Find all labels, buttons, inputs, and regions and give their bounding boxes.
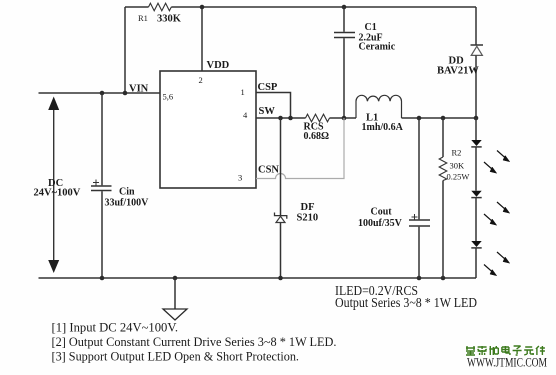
node R2 bottom junction [441, 276, 446, 281]
svg-text:VIN: VIN [129, 84, 149, 95]
wire top rail right segment [171, 6, 476, 8]
svg-text:30K: 30K [450, 161, 466, 171]
svg-text:WWW.JTMIC.COM: WWW.JTMIC.COM [467, 355, 547, 369]
op-amp U1 controller IC box [160, 71, 256, 188]
wire CSP from IC [256, 93, 291, 119]
resistor RCS [306, 114, 330, 122]
capacitor Cout plates [409, 220, 430, 226]
node ground junction [173, 276, 178, 281]
svg-text:Output Series 3~8 * 1W LED: Output Series 3~8 * 1W LED [335, 295, 477, 310]
node R1 branch junction [123, 91, 128, 96]
wire DF vertical upper [280, 118, 282, 216]
wire VIN input rail [39, 92, 161, 94]
svg-text:CSN: CSN [258, 165, 279, 176]
capacitor Cout wire upper [418, 118, 420, 219]
node VDD junction [200, 5, 205, 10]
svg-text:3: 3 [238, 173, 242, 183]
wire left vertical from top rail to VIN rail [124, 7, 126, 93]
node RCS-C1 junction [342, 116, 347, 121]
svg-text:0.68Ω: 0.68Ω [304, 131, 330, 142]
wire RCS to L1 [330, 117, 357, 119]
wire L1 to LED string [402, 117, 477, 119]
svg-text:CSP: CSP [258, 82, 278, 93]
svg-text:SW: SW [259, 106, 276, 117]
capacitor C1 vertical wire upper [343, 7, 345, 32]
wire LED segment 2 [475, 147, 477, 191]
capacitor C1 plates [334, 33, 355, 38]
node DF bottom junction [278, 276, 283, 281]
diode DD triangle [471, 46, 482, 55]
node C1 top junction [342, 5, 347, 10]
svg-text:33uf/100V: 33uf/100V [105, 198, 150, 209]
svg-text:VDD: VDD [207, 60, 230, 71]
wire VDD vertical [201, 7, 203, 71]
svg-text:Cout: Cout [371, 207, 393, 218]
capacitor Cout polarity plus [412, 214, 418, 220]
svg-text:5,6: 5,6 [163, 92, 174, 102]
capacitor C1 vertical wire lower [343, 38, 345, 118]
node LED string junction [474, 116, 479, 121]
LED D1 [471, 140, 481, 146]
svg-text:S210: S210 [297, 213, 319, 224]
diode DF triangle [276, 216, 285, 222]
capacitor Cin polarity plus [93, 180, 99, 186]
svg-text:DF: DF [301, 202, 315, 213]
diode DF vertical lower [280, 223, 282, 279]
wire LED segment 3 [475, 198, 477, 241]
LED D3 emission arrows [484, 252, 510, 276]
wire top rail left segment [125, 6, 149, 8]
resistor R2 zigzag [439, 157, 447, 181]
LED D2 [471, 191, 481, 197]
node SW-DF junction [278, 116, 283, 121]
wire SW from IC [256, 117, 306, 119]
LED D3 [471, 241, 481, 247]
node Cout junction top [417, 116, 422, 121]
LED string wire segment 1 [475, 118, 477, 140]
ground [174, 278, 176, 309]
diode DD vertical wire upper [475, 7, 477, 45]
LED D1 emission arrows [484, 151, 510, 174]
svg-text:1: 1 [241, 87, 245, 97]
wire CSN sense (gray) [256, 118, 344, 179]
svg-text:24V~100V: 24V~100V [34, 188, 81, 199]
inductor L1 [356, 95, 402, 118]
svg-text:100uf/35V: 100uf/35V [358, 218, 403, 229]
node Cin top junction [100, 91, 105, 96]
svg-text:R1: R1 [138, 13, 148, 23]
svg-text:330K: 330K [157, 14, 182, 25]
diode DD cathode bar [471, 44, 484, 46]
svg-text:[3] Support Output LED Open &: [3] Support Output LED Open & Short Prot… [52, 350, 300, 364]
svg-text:2: 2 [199, 75, 203, 85]
wire LED segment 4 [475, 248, 477, 278]
resistor R2 wire lower [442, 181, 444, 279]
diode DD vertical wire lower [475, 55, 477, 118]
svg-text:[2] Output Constant Current Dr: [2] Output Constant Current Drive Series… [52, 335, 337, 349]
wire bottom rail [39, 277, 477, 279]
DC source arrow double-headed [53, 105, 55, 263]
svg-text:0.25W: 0.25W [447, 172, 470, 182]
svg-text:C1: C1 [365, 22, 377, 33]
svg-text:1mh/0.6A: 1mh/0.6A [362, 122, 404, 133]
svg-text:[1] Input DC 24V~100V.: [1] Input DC 24V~100V. [52, 321, 179, 335]
capacitor Cin wire upper [101, 93, 103, 185]
svg-text:R2: R2 [452, 148, 462, 158]
capacitor Cin plates [91, 186, 112, 191]
node R2 junction top [441, 116, 446, 121]
capacitor Cout wire lower [418, 227, 420, 278]
svg-text:Cin: Cin [119, 187, 135, 198]
resistor R1 [149, 3, 172, 11]
LED D2 emission arrows [484, 202, 510, 225]
node Cout bottom junction [417, 276, 422, 281]
diode DF schottky bar [275, 213, 287, 219]
resistor R2 wire upper [442, 118, 444, 157]
svg-text:BAV21W: BAV21W [437, 66, 479, 77]
node Cin bottom junction [100, 276, 105, 281]
node CSP-SW junction [288, 116, 293, 121]
svg-text:Ceramic: Ceramic [359, 42, 396, 53]
capacitor Cin wire lower [101, 191, 103, 278]
watermark chinese characters (hand-drawn strokes) [466, 346, 545, 355]
